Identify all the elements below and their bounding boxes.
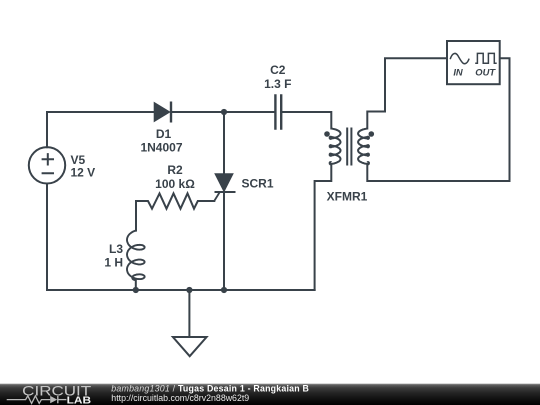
wire SCR anode from node A [223,112,225,174]
value 1N4007 [140,140,182,154]
square wave icon [475,53,497,63]
footer credit line [111,383,309,393]
svg-text:bambang1301 / Tugas Desain 1 -: bambang1301 / Tugas Desain 1 - Rangkaian… [111,383,309,393]
voltage source V5 [29,147,65,183]
wire transformer secondary top to scope IN [367,58,447,128]
svg-text:OUT: OUT [475,66,496,77]
transformer XFMR1 primary winding [330,129,341,165]
primary phase dot [324,131,330,137]
value 100 kOhm [155,177,195,191]
footer logo LAB [67,394,92,405]
secondary phase dot [369,131,375,137]
junction dot L3 / bottom rail [133,287,139,293]
svg-text:R2: R2 [167,163,183,177]
SCR1 thyristor [214,174,235,201]
transformer XFMR1 secondary winding [358,129,369,165]
label SCR1 [242,176,274,190]
value 1 H [104,255,123,269]
junction dot ground / bottom rail [186,287,192,293]
wire bottom rail [47,289,315,291]
svg-text:1 H: 1 H [104,255,123,269]
svg-text:C2: C2 [270,63,286,77]
wire L3 bottom to bottom rail [135,279,137,290]
footer bar [0,384,540,405]
label D1 [156,127,172,141]
svg-text:http://circuitlab.com/c8rv2n88: http://circuitlab.com/c8rv2n88w62t9 [111,393,249,403]
wire L3 top from resistor corner [135,201,137,231]
transformer core [347,128,351,166]
footer logo CIRCUIT [22,384,92,399]
value 1.3 F [264,77,291,91]
wire diode cathode to node A (junction) to capacitor [171,111,275,113]
label L3 [109,242,123,256]
svg-text:XFMR1: XFMR1 [327,190,368,204]
label C2 [270,63,286,77]
wire transformer primary bottom to bottom rail [315,165,332,291]
label V5 [71,153,86,167]
junction dot SCR / bottom rail [221,287,227,293]
svg-text:SCR1: SCR1 [242,176,274,190]
footer logo doodle resistor [7,396,51,404]
sine wave icon [450,53,469,63]
wire top-left from V5 to diode anode [47,112,154,147]
svg-text:L3: L3 [109,242,123,256]
footer logo doodle diode [50,396,66,403]
capacitor C2 [275,94,281,130]
value 12 V [71,166,96,180]
svg-text:100 kΩ: 100 kΩ [155,177,195,191]
label OUT [475,66,496,77]
wire V5 bottom to bottom-left corner [46,184,48,291]
resistor R2 [136,193,214,208]
svg-text:IN: IN [453,66,463,77]
svg-text:D1: D1 [156,127,172,141]
diode D1 [154,102,171,123]
node A junction dot [221,109,227,115]
label IN [453,66,463,77]
wire capacitor to transformer primary top [281,112,331,129]
wire transformer secondary bottom to scope OUT [367,58,509,181]
scope / function generator box [447,41,500,84]
svg-text:LAB: LAB [67,394,92,405]
ground [173,290,207,356]
label R2 [167,163,183,177]
inductor L3 [127,231,145,281]
svg-text:12 V: 12 V [71,166,96,180]
wire SCR cathode to bottom rail [223,192,225,290]
svg-text:1N4007: 1N4007 [140,140,182,154]
footer url line [111,393,249,403]
svg-text:1.3 F: 1.3 F [264,77,291,91]
label XFMR1 [327,190,368,204]
